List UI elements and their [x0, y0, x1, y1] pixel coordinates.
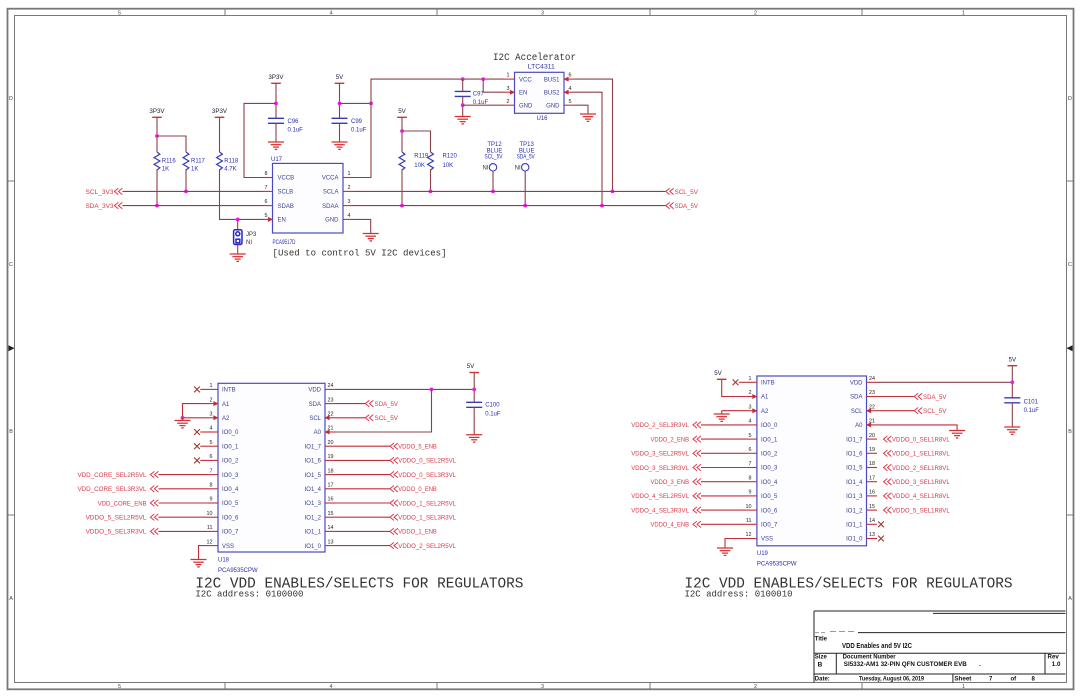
U17 pin 6 SDAB	[263, 205, 273, 207]
U18 pin 5 IO0_1	[208, 445, 219, 447]
svg-text:IO0_6: IO0_6	[761, 508, 778, 514]
svg-text:of: of	[1011, 677, 1018, 683]
wire C97 top	[462, 79, 464, 91]
svg-text:U19: U19	[757, 551, 769, 557]
svg-text:VDDO_4_ENB: VDDO_4_ENB	[651, 523, 690, 529]
svg-text:VSS: VSS	[761, 537, 773, 543]
svg-text:VDDO_1_SEL3R3VL: VDDO_1_SEL3R3VL	[398, 516, 456, 522]
wire A2 junction to ground	[182, 418, 184, 421]
svg-text:Rev: Rev	[1048, 654, 1060, 661]
wire U19 VDD 5V rail	[877, 381, 1012, 383]
svg-text:2: 2	[754, 10, 757, 16]
ic U19 PCA9535CPW body	[757, 376, 867, 546]
svg-text:SDA: SDA	[309, 402, 321, 408]
resistor R118	[217, 152, 223, 170]
ground (C99)	[332, 142, 348, 149]
wire VDDO_3_ENB to U19 pin 8	[701, 481, 746, 483]
svg-text:6: 6	[210, 454, 213, 460]
U18 pin 18 IO1_5	[325, 474, 336, 476]
wire 5V to R119	[401, 117, 403, 152]
svg-text:INTB: INTB	[222, 388, 236, 394]
svg-text:.: .	[979, 661, 981, 668]
svg-text:3: 3	[210, 412, 213, 418]
svg-text:R117: R117	[191, 158, 206, 164]
testpoint TP12	[489, 164, 496, 171]
svg-text:VDDO_1_SEL2R5VL: VDDO_1_SEL2R5VL	[398, 501, 456, 507]
junction VCCA riser	[369, 102, 373, 106]
U19 no-connect X pin 14	[878, 521, 884, 527]
capacitor C100	[466, 402, 482, 407]
wire U18 pin 16 to port	[336, 502, 391, 504]
svg-text:TP12: TP12	[487, 142, 502, 148]
svg-text:SCL: SCL	[851, 409, 863, 415]
U19 pin 24 VDD	[867, 381, 878, 383]
power 5V (R119)	[397, 116, 407, 118]
junction C97 top	[461, 77, 465, 81]
wire U16 GND pin 5 to ground	[575, 105, 589, 114]
wire VDD_CORE_SEL2R5VL to U18 pin 7	[159, 474, 208, 476]
svg-text:C101: C101	[1024, 400, 1039, 406]
junction TP13/SDA_5V	[523, 204, 527, 208]
svg-text:VDDO_1_ENB: VDDO_1_ENB	[398, 530, 437, 536]
border zone letters left	[9, 96, 13, 602]
svg-text:A2: A2	[222, 416, 230, 422]
wire R118 to EN	[220, 169, 263, 219]
U17 pin 5 EN	[263, 218, 273, 220]
svg-text:23: 23	[869, 390, 875, 396]
svg-text:IO0_7: IO0_7	[761, 523, 778, 529]
svg-text:2: 2	[749, 390, 752, 396]
svg-text:VDDO_1_SEL1R8VL: VDDO_1_SEL1R8VL	[892, 452, 950, 458]
svg-text:5V: 5V	[336, 74, 344, 81]
U16 pin 1 VCC	[504, 78, 515, 80]
svg-text:VDDO_2_SEL1R8VL: VDDO_2_SEL1R8VL	[892, 466, 950, 472]
port VDDO_2_SEL1R8VL	[884, 464, 892, 470]
svg-text:BUS1: BUS1	[544, 77, 560, 83]
svg-text:13: 13	[328, 539, 334, 545]
testpoint TP13	[522, 164, 529, 171]
svg-text:VDDO_2_ENB: VDDO_2_ENB	[651, 437, 690, 443]
svg-text:4: 4	[330, 684, 333, 690]
svg-text:3: 3	[541, 684, 544, 690]
ground (U19 A2)	[714, 414, 730, 421]
svg-text:A1: A1	[761, 395, 769, 401]
svg-text:IO1_1: IO1_1	[846, 523, 863, 529]
svg-text:3: 3	[348, 199, 351, 205]
svg-text:19: 19	[328, 454, 334, 460]
wire VDDO_5_SEL2R5VL to U18 pin 10	[159, 516, 208, 518]
svg-text:C: C	[1068, 262, 1072, 268]
svg-text:3: 3	[507, 86, 510, 92]
svg-text:BLUE: BLUE	[519, 148, 535, 154]
svg-text:14: 14	[869, 518, 875, 524]
svg-text:5V: 5V	[1009, 357, 1017, 364]
svg-text:VDDO_0_SEL3R3VL: VDDO_0_SEL3R3VL	[398, 473, 456, 479]
svg-text:2: 2	[507, 99, 510, 105]
svg-text:9: 9	[749, 490, 752, 496]
ic U16 LTC4311 body	[515, 72, 565, 113]
U18 A0 input arrow	[324, 430, 329, 435]
svg-text:VDDO_5_SEL1R8VL: VDDO_5_SEL1R8VL	[892, 508, 950, 514]
wire C96 to ground	[275, 123, 277, 142]
power 3P3V (R118)	[215, 116, 225, 118]
wire VDDO_4_SEL3R3VL to U19 pin 10	[701, 509, 746, 511]
wire EN junction to JP3	[237, 219, 239, 229]
wire C99 to VCCA riser	[340, 102, 372, 104]
svg-text:C: C	[9, 262, 13, 268]
wire 5V down to C99	[339, 83, 341, 118]
svg-text:IO1_6: IO1_6	[305, 459, 322, 465]
U19 pin 14 IO1_1	[867, 523, 878, 525]
svg-text:NI: NI	[483, 166, 489, 172]
ic U18 PCA9535CPW body	[218, 383, 325, 552]
border zone numbers top	[118, 10, 965, 16]
power 5V (C100)	[469, 372, 479, 374]
svg-text:VDD Enables and 5V I2C: VDD Enables and 5V I2C	[842, 643, 912, 650]
svg-text:3P3V: 3P3V	[212, 108, 228, 115]
svg-text:18: 18	[328, 468, 334, 474]
svg-text:EN: EN	[519, 90, 527, 96]
U17 pin 3 SDAA	[343, 205, 354, 207]
svg-text:VCCB: VCCB	[278, 176, 295, 182]
U18 pin 16 IO1_3	[325, 502, 336, 504]
svg-text:SDA: SDA	[850, 395, 862, 401]
svg-text:5V: 5V	[714, 370, 722, 377]
wire A0 to VDD	[336, 389, 432, 432]
svg-text:SCL_5V: SCL_5V	[485, 155, 503, 161]
U19 pin 10 IO0_6	[746, 509, 757, 511]
port VDDO_4_SEL1R8VL	[884, 493, 892, 499]
svg-text:14: 14	[328, 525, 334, 531]
svg-text:SCL: SCL	[309, 416, 321, 422]
wire 5V to A1	[722, 379, 747, 396]
svg-text:18: 18	[869, 461, 875, 467]
wire R116 to SDA_3V3	[156, 169, 158, 205]
svg-text:Size: Size	[815, 655, 828, 661]
svg-text:IO1_5: IO1_5	[846, 466, 863, 472]
svg-text:VDDO_5_SEL3R3VL: VDDO_5_SEL3R3VL	[86, 530, 148, 536]
svg-text:5: 5	[118, 684, 121, 690]
junction R119/SDA_5V	[400, 204, 404, 208]
ground (C100)	[466, 435, 482, 442]
svg-text:IO0_7: IO0_7	[222, 530, 239, 536]
capacitor C101	[1004, 398, 1020, 403]
svg-text:NI: NI	[246, 240, 252, 246]
svg-text:7: 7	[749, 461, 752, 467]
svg-text:10K: 10K	[414, 163, 425, 169]
U18 pin 21 A0	[325, 431, 336, 433]
wire 5V to VDD	[473, 373, 475, 403]
power 5V (C99)	[335, 82, 345, 84]
svg-text:6: 6	[569, 73, 572, 79]
U16 pin 4 BUS2	[564, 91, 575, 93]
svg-text:GND: GND	[519, 103, 533, 109]
svg-text:VDDO_0_SEL2R5VL: VDDO_0_SEL2R5VL	[398, 459, 456, 465]
svg-text:20: 20	[328, 440, 334, 446]
svg-text:R116: R116	[162, 158, 177, 164]
svg-text:16: 16	[328, 497, 334, 503]
wire TP12 to SCL_5V	[492, 171, 494, 191]
svg-text:C100: C100	[485, 403, 500, 409]
wire R119 to SDA_5V	[401, 169, 403, 205]
U18 SCL input arrow	[324, 415, 329, 420]
svg-text:2: 2	[754, 684, 757, 690]
U19 pin 5 IO0_1	[746, 438, 757, 440]
wire U17 GND to ground	[354, 219, 371, 233]
wire U18 pin 20 to port	[336, 445, 391, 447]
svg-text:A0: A0	[855, 423, 863, 429]
port VDDO_0_SEL1R8VL	[884, 436, 892, 442]
wire A0 to ground (U19)	[877, 425, 957, 431]
junction R116/R117 top	[155, 134, 159, 138]
svg-text:BUS2: BUS2	[544, 90, 560, 96]
svg-text:IO1_4: IO1_4	[846, 480, 863, 486]
junction EN/JP3	[236, 218, 240, 222]
svg-text:0.1uF: 0.1uF	[288, 128, 304, 134]
svg-text:VDDO_0_ENB: VDDO_0_ENB	[398, 487, 437, 493]
svg-text:TP13: TP13	[520, 142, 535, 148]
svg-text:5V: 5V	[398, 108, 406, 115]
U19 pin 15 IO1_2	[867, 509, 878, 511]
svg-text:VDD_CORE_SEL2R5VL: VDD_CORE_SEL2R5VL	[77, 473, 147, 479]
svg-text:U16: U16	[537, 116, 549, 122]
svg-text:19: 19	[869, 447, 875, 453]
svg-text:U18: U18	[218, 558, 230, 564]
U19 pin 4 IO0_0	[746, 424, 757, 426]
svg-text:IO0_5: IO0_5	[761, 494, 778, 500]
svg-text:5V: 5V	[467, 363, 475, 370]
junction C96/VCCB	[274, 102, 278, 106]
U19 pin 12 VSS	[746, 538, 757, 540]
U19 pin 18 IO1_5	[867, 467, 878, 469]
svg-text:4: 4	[330, 10, 333, 16]
svg-text:5: 5	[265, 213, 268, 219]
svg-text:A: A	[9, 596, 13, 602]
svg-text:C96: C96	[288, 119, 300, 125]
svg-text:IO1_7: IO1_7	[305, 444, 322, 450]
port SCL_5V (U19)	[877, 410, 914, 412]
U19 pin 20 IO1_7	[867, 438, 878, 440]
wire U18 pin 15 to port	[336, 516, 391, 518]
U18 pin 9 IO0_5	[208, 502, 219, 504]
svg-text:0.1uF: 0.1uF	[351, 128, 367, 134]
border zone ticks bottom	[225, 683, 862, 690]
wire R120 to SCL_5V	[430, 169, 432, 191]
svg-text:SDA_3V3: SDA_3V3	[86, 204, 115, 210]
U19 pin 19 IO1_6	[867, 452, 878, 454]
U18 pin 7 IO0_3	[208, 474, 219, 476]
svg-text:6: 6	[265, 199, 268, 205]
port SCL_5V (U18)	[336, 417, 366, 419]
svg-text:SCL_5V: SCL_5V	[375, 416, 399, 422]
border centerline arrow left	[9, 345, 15, 351]
svg-text:17: 17	[328, 483, 334, 489]
svg-text:2: 2	[348, 185, 351, 191]
port VDDO_0_SEL3R3VL	[390, 471, 398, 477]
svg-text:IO0_4: IO0_4	[761, 480, 778, 486]
U18 pin 15 IO1_2	[325, 516, 336, 518]
svg-text:4: 4	[749, 419, 752, 425]
wire U18 pin 19 to port	[336, 459, 391, 461]
svg-text:SCL_5V: SCL_5V	[675, 190, 699, 196]
wire EN branch to U16 EN	[483, 79, 504, 92]
junction R117/SCL_3V3	[184, 190, 188, 194]
svg-text:7: 7	[265, 185, 268, 191]
ic U17 PCA9517D body	[273, 163, 344, 233]
wire JP3 to ground	[237, 245, 239, 255]
svg-text:VDDO_4_SEL1R8VL: VDDO_4_SEL1R8VL	[892, 494, 950, 500]
svg-text:IO0_4: IO0_4	[222, 487, 239, 493]
svg-text:LTC4311: LTC4311	[528, 65, 556, 71]
ground (U17 GND)	[363, 234, 379, 241]
svg-text:Date:: Date:	[815, 677, 830, 683]
svg-text:VDDO_2_SEL3R3VL: VDDO_2_SEL3R3VL	[631, 423, 689, 429]
U17 EN input arrow	[268, 217, 273, 222]
wire C100 to ground	[473, 407, 475, 434]
wire 3P3V to R118	[219, 117, 221, 152]
svg-text:SCL_3V3: SCL_3V3	[86, 190, 115, 196]
wire 5V to VDD (U19)	[1011, 366, 1013, 398]
svg-text:24: 24	[869, 376, 875, 382]
U18 pin 6 IO0_2	[208, 459, 219, 461]
svg-text:C99: C99	[351, 119, 363, 125]
svg-text:GND: GND	[325, 218, 339, 224]
svg-text:4.7K: 4.7K	[224, 167, 236, 173]
junction VDD/C100	[472, 388, 476, 392]
U18 pin 2 A1	[208, 403, 219, 405]
svg-text:5: 5	[118, 10, 121, 16]
U19 A2 input arrow	[752, 408, 757, 413]
wire SCL_5V bus	[354, 190, 666, 192]
port SCL_5V (top)	[666, 188, 674, 194]
svg-text:11: 11	[746, 518, 752, 524]
U18 pin 12 VSS	[208, 545, 219, 547]
wire branch to R117	[157, 136, 186, 152]
svg-text:Document Number: Document Number	[843, 654, 897, 661]
svg-text:JP3: JP3	[246, 232, 257, 238]
ground (C101)	[1004, 427, 1020, 434]
wire VDD_CORE_ENB to U18 pin 9	[159, 502, 208, 504]
svg-text:I2C address: 0100010: I2C address: 0100010	[685, 590, 793, 600]
svg-text:I2C address: 0100000: I2C address: 0100000	[195, 590, 303, 600]
svg-text:12: 12	[746, 532, 752, 538]
svg-text:D: D	[1068, 96, 1072, 102]
svg-text:R118: R118	[224, 158, 239, 164]
U18 pin 10 IO0_6	[208, 516, 219, 518]
resistor R116	[154, 152, 160, 170]
junction R120/SCL_5V	[429, 190, 433, 194]
svg-text:IO0_3: IO0_3	[222, 473, 239, 479]
junction TP12/SCL_5V	[491, 190, 495, 194]
svg-text:5: 5	[210, 440, 213, 446]
U18 pin 23 SDA	[325, 403, 336, 405]
U17 pin 2 SCLA	[343, 190, 354, 192]
ground (U19 A0)	[949, 431, 965, 438]
ground (U18 VSS)	[191, 560, 207, 567]
svg-text:VDDO_4_SEL2R5VL: VDDO_4_SEL2R5VL	[631, 494, 689, 500]
svg-text:0.1uF: 0.1uF	[1024, 408, 1040, 414]
svg-text:SDA_5V: SDA_5V	[517, 155, 535, 161]
junction BUS1/SCL_5V	[611, 190, 615, 194]
svg-text:VCCA: VCCA	[322, 176, 339, 182]
U16 EN input arrow	[510, 90, 515, 95]
port VDDO_1_ENB	[390, 528, 398, 534]
svg-text:10K: 10K	[443, 163, 454, 169]
svg-text:B: B	[818, 661, 823, 668]
svg-text:NI: NI	[515, 166, 521, 172]
svg-text:IO1_1: IO1_1	[305, 530, 322, 536]
svg-text:3: 3	[541, 10, 544, 16]
U18 pin 11 IO0_7	[208, 530, 219, 532]
U19 SCL input arrow	[866, 408, 871, 413]
U16 BUS1 arrow	[563, 77, 568, 82]
resistor R119	[399, 152, 405, 170]
svg-text:9: 9	[210, 497, 213, 503]
svg-text:IO0_0: IO0_0	[222, 430, 239, 436]
svg-text:15: 15	[869, 504, 875, 510]
svg-text:IO1_2: IO1_2	[305, 515, 322, 521]
svg-text:U17: U17	[271, 157, 283, 163]
port VDDO_3_SEL1R8VL	[884, 479, 892, 485]
svg-text:VDDO_3_SEL3R3VL: VDDO_3_SEL3R3VL	[631, 466, 689, 472]
U17 pin 7 SCLB	[263, 190, 273, 192]
svg-text:SDAA: SDAA	[322, 204, 338, 210]
svg-text:VDDO_0_SEL1R8VL: VDDO_0_SEL1R8VL	[892, 437, 950, 443]
svg-text:VDDO_4_SEL3R3VL: VDDO_4_SEL3R3VL	[631, 508, 689, 514]
svg-text:8: 8	[210, 483, 213, 489]
U19 pin 11 IO0_7	[746, 523, 757, 525]
svg-text:1K: 1K	[191, 167, 198, 173]
svg-text:VDDO_5_SEL2R5VL: VDDO_5_SEL2R5VL	[86, 516, 148, 522]
svg-text:3: 3	[749, 404, 752, 410]
wire U18 VSS to ground	[199, 546, 208, 560]
svg-text:VDDO_2_SEL2R5VL: VDDO_2_SEL2R5VL	[398, 544, 456, 550]
U19 pin 22 SCL	[867, 410, 878, 412]
svg-text:A1: A1	[222, 402, 230, 408]
svg-text:B: B	[1068, 429, 1072, 435]
wire VDDO_3_SEL2R5VL to U19 pin 6	[701, 452, 746, 454]
U19 no-connect X pin 1	[733, 379, 739, 385]
U19 pin 7 IO0_3	[746, 467, 757, 469]
wire VDDO_3_SEL3R3VL to U19 pin 7	[701, 467, 746, 469]
U18 no-connect X pin 5	[194, 443, 200, 449]
U18 pin 3 A2	[208, 417, 219, 419]
U18 pin 13 IO1_0	[325, 545, 336, 547]
svg-text:SCLA: SCLA	[323, 190, 339, 196]
wire BUS1 to SCL_5V	[575, 79, 613, 191]
svg-text:IO1_4: IO1_4	[305, 487, 322, 493]
svg-text:SCLB: SCLB	[278, 190, 294, 196]
svg-text:IO1_3: IO1_3	[305, 501, 322, 507]
wire VDDO_2_SEL3R3VL to U19 pin 4	[701, 424, 746, 426]
svg-text:VCC: VCC	[519, 77, 532, 83]
U18 pin 24 VDD	[325, 388, 336, 390]
title block doc dashes	[815, 632, 857, 633]
svg-text:SI5332-AM1 32-PIN QFN CUSTOMER: SI5332-AM1 32-PIN QFN CUSTOMER EVB	[844, 661, 967, 668]
svg-text:VDD: VDD	[850, 381, 863, 387]
wire U18 pin 13 to port	[336, 545, 391, 547]
U19 pin 6 IO0_2	[746, 452, 757, 454]
port VDDO_5_ENB	[390, 443, 398, 449]
port SDA_5V (U18)	[336, 403, 366, 405]
svg-text:BLUE: BLUE	[487, 148, 503, 154]
svg-text:4: 4	[569, 86, 572, 92]
port VDDO_5_SEL1R8VL	[884, 507, 892, 513]
border zone ticks top	[225, 9, 862, 16]
U18 no-connect X pin 4	[194, 429, 200, 435]
capacitor C99	[332, 118, 348, 123]
U19 pin 21 A0	[867, 424, 878, 426]
